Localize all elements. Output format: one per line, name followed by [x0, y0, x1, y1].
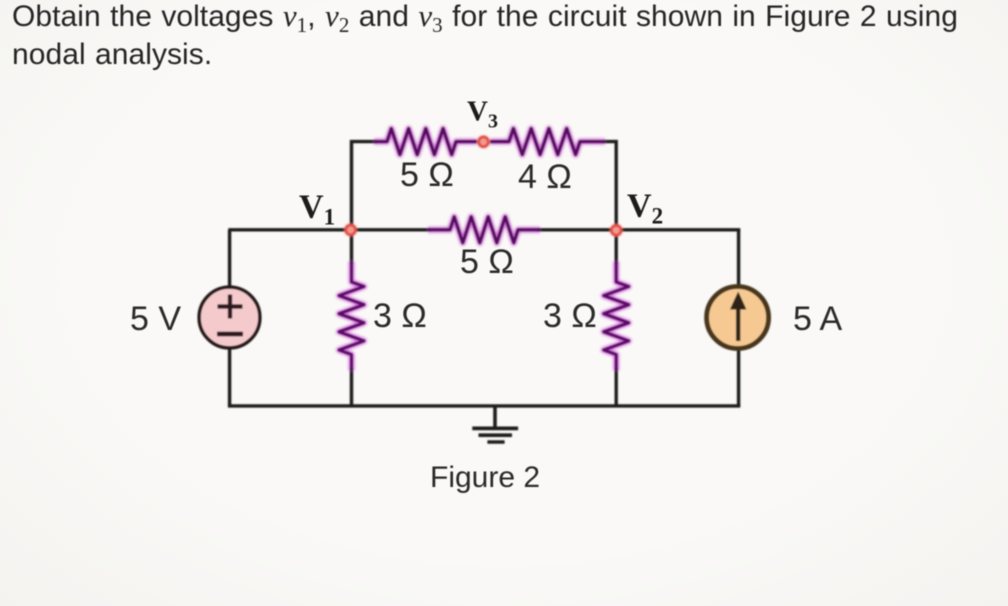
wire: bottom rail — [228, 404, 740, 407]
title text line 2 — [12, 40, 212, 70]
resistor 3 ohm (right vertical) — [604, 262, 629, 371]
node V1 (junction dot) — [343, 222, 358, 237]
current source 5 A — [707, 287, 769, 349]
svg-text:V3: V3 — [467, 96, 498, 133]
resistor 5 ohm (middle, V1 to V2) — [428, 217, 540, 243]
title text line 1 — [12, 2, 958, 32]
svg-text:V1: V1 — [299, 189, 335, 230]
wire: right outer branch through 5A source — [737, 230, 740, 406]
wire: top loop (V1 up, across, down to V2) — [352, 142, 378, 230]
svg-text:3 Ω: 3 Ω — [543, 297, 597, 335]
svg-text:Figure 2: Figure 2 — [430, 461, 540, 494]
wire: left 3-ohm vertical branch — [350, 230, 353, 264]
wire: mid rail V1-V2 — [228, 228, 431, 231]
svg-text:V2: V2 — [627, 188, 663, 229]
svg-text:3 Ω: 3 Ω — [373, 297, 427, 335]
node V3 (junction dot) — [476, 134, 491, 149]
resistor 4 ohm (top right, V3 to V2) — [490, 129, 605, 155]
svg-text:4 Ω: 4 Ω — [518, 158, 572, 196]
svg-text:5 Ω: 5 Ω — [460, 243, 514, 281]
voltage source 5 V — [199, 287, 260, 348]
wire: left outer branch through 5V source — [228, 230, 231, 406]
wire: right 3-ohm vertical branch — [615, 230, 618, 264]
resistor 5 ohm (top left, V1 to V3) — [374, 129, 477, 155]
resistor 3 ohm (left vertical) — [339, 262, 364, 371]
svg-text:5 A: 5 A — [793, 300, 842, 338]
svg-text:5 Ω: 5 Ω — [400, 156, 454, 194]
node V2 (junction dot) — [609, 223, 624, 238]
svg-text:5 V: 5 V — [130, 300, 181, 338]
ground — [472, 406, 518, 442]
